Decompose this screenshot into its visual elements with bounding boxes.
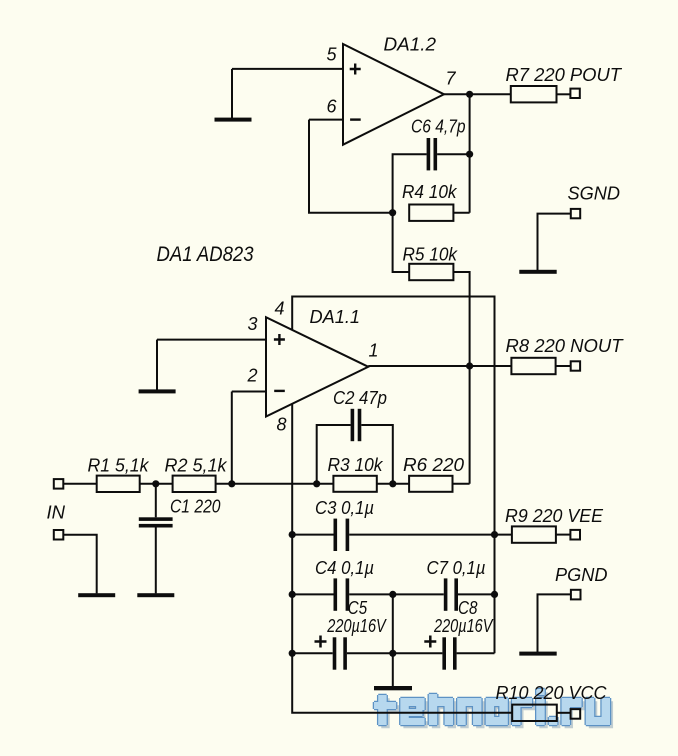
node C2 right <box>389 480 396 487</box>
capacitor C8 <box>442 637 456 669</box>
node R9 <box>491 531 498 538</box>
wire mid bus <box>392 594 394 686</box>
PGND wire <box>538 594 571 652</box>
node mid bus top <box>389 591 396 598</box>
resistor R1 <box>97 476 140 492</box>
svg-text:C7 0,1µ: C7 0,1µ <box>427 558 486 578</box>
wire output DA1.1 <box>368 365 511 367</box>
wire R6 right <box>453 483 470 485</box>
wire pin4 to VEE bus <box>292 297 494 654</box>
resistor R6 <box>409 476 452 492</box>
svg-text:C6 4,7p: C6 4,7p <box>411 117 466 137</box>
capacitor C5 <box>333 637 347 669</box>
svg-text:C2 47p: C2 47p <box>333 388 387 408</box>
svg-text:R4 10k: R4 10k <box>402 182 457 202</box>
capacitor C1 <box>139 517 173 527</box>
terminal IN shield <box>54 530 64 540</box>
wire C5-C8 <box>347 652 443 654</box>
node C5 left <box>289 650 296 657</box>
capacitor C6 <box>427 138 438 170</box>
svg-text:R6 220: R6 220 <box>403 455 464 475</box>
svg-text:1: 1 <box>369 340 379 360</box>
wire C3 right <box>349 534 512 536</box>
node output pin7 <box>466 91 473 98</box>
node C1 <box>152 480 159 487</box>
svg-text:IN: IN <box>47 502 67 522</box>
capacitor C4 <box>334 578 350 610</box>
wire R4 right <box>453 212 469 214</box>
node pin2 <box>228 480 235 487</box>
wire C6 right <box>437 153 470 155</box>
DA1.1 plus input symbol <box>274 334 285 345</box>
terminal IN <box>54 479 64 489</box>
ground <box>139 389 176 393</box>
wire C1 top <box>155 484 157 518</box>
wire output bus <box>469 94 471 212</box>
node R4 left <box>389 209 396 216</box>
svg-text:3: 3 <box>248 314 258 334</box>
wire pin2 <box>232 391 266 393</box>
svg-text:DA1 AD823: DA1 AD823 <box>157 243 254 266</box>
wire C5 left <box>292 652 333 654</box>
svg-text:R10 220 VCC: R10 220 VCC <box>496 683 608 703</box>
DA1.2 minus input symbol <box>350 118 361 120</box>
C5 plus sign <box>315 636 327 648</box>
node C7 right <box>491 591 498 598</box>
op-amp DA1.2 <box>343 44 444 145</box>
wire IN shield <box>63 535 96 594</box>
resistor R2 <box>173 476 216 492</box>
wire C6 left <box>393 154 427 213</box>
wire R2 right <box>216 483 334 485</box>
svg-text:8: 8 <box>277 415 287 435</box>
svg-text:220µ16V: 220µ16V <box>433 616 494 636</box>
resistor R8 <box>511 358 555 374</box>
node mid bus bottom <box>389 650 396 657</box>
resistor R9 <box>512 526 556 542</box>
wire R10 right <box>557 712 571 714</box>
svg-text:R3 10k: R3 10k <box>328 455 384 475</box>
wire R3 right <box>377 483 409 485</box>
wire pin2 down <box>231 392 233 484</box>
svg-text:C1 220: C1 220 <box>170 496 221 516</box>
svg-text:220µ16V: 220µ16V <box>326 616 387 636</box>
svg-text:6: 6 <box>327 97 338 117</box>
svg-text:SGND: SGND <box>568 184 621 204</box>
wire R5 right <box>453 272 469 484</box>
resistor R10 <box>512 705 557 721</box>
resistor R7 <box>511 86 557 102</box>
PGND terminal <box>571 590 581 600</box>
svg-text:R5 10k: R5 10k <box>403 245 458 265</box>
wire R1 right <box>140 483 173 485</box>
resistor R5 <box>409 264 453 280</box>
wire C2 left <box>317 425 351 484</box>
wire to ground (pin5) <box>231 69 233 118</box>
capacitor C2 <box>351 409 362 441</box>
svg-text:R2 5,1k: R2 5,1k <box>165 455 228 475</box>
svg-text:4: 4 <box>275 299 285 319</box>
wire pin3 ground <box>156 340 158 390</box>
svg-text:DA1.1: DA1.1 <box>310 307 361 327</box>
wire pin5 <box>232 68 343 70</box>
resistor R3 <box>333 476 376 492</box>
wire IN <box>63 483 96 485</box>
ground IN <box>78 593 115 597</box>
wire pin6 <box>309 119 343 121</box>
ground mid <box>374 686 412 690</box>
svg-text:R7 220 POUT: R7 220 POUT <box>506 65 624 85</box>
SGND ground <box>519 270 556 274</box>
ground C1 <box>137 593 174 597</box>
wire pin8 bus <box>292 404 512 713</box>
svg-text:5: 5 <box>327 44 338 64</box>
PGND ground <box>519 652 556 656</box>
svg-text:2: 2 <box>247 365 258 385</box>
resistor R4 <box>409 205 453 221</box>
wire C4 left <box>292 593 333 595</box>
node C4 left <box>289 591 296 598</box>
terminal NOUT <box>571 361 580 370</box>
svg-text:PGND: PGND <box>555 565 608 585</box>
terminal VEE <box>570 530 580 540</box>
node C6 right <box>466 151 473 158</box>
svg-text:C5: C5 <box>348 598 368 618</box>
wire R5 left <box>393 213 410 272</box>
SGND terminal <box>571 209 580 218</box>
wire C3 left <box>292 534 333 536</box>
capacitor C7 <box>444 578 458 610</box>
node C2 left <box>313 480 320 487</box>
svg-text:C8: C8 <box>458 598 478 618</box>
svg-text:C4 0,1µ: C4 0,1µ <box>315 558 374 578</box>
DA1.1 minus input symbol <box>274 390 285 392</box>
wire output <box>444 93 511 95</box>
svg-text:R1 5,1k: R1 5,1k <box>88 455 150 475</box>
terminal POUT <box>570 89 579 98</box>
wire C4-C7 <box>349 593 444 595</box>
svg-text:DA1.2: DA1.2 <box>384 35 437 55</box>
capacitor C3 <box>334 519 350 551</box>
C8 plus sign <box>424 636 436 648</box>
wire <box>309 120 393 213</box>
wire R8 right <box>556 365 571 367</box>
node C3 left <box>289 531 296 538</box>
wire C2 right <box>361 425 393 484</box>
svg-text:C3 0,1µ: C3 0,1µ <box>315 498 374 518</box>
DA1.2 plus input symbol <box>350 64 361 75</box>
wire pin3 <box>157 339 266 341</box>
wire C1 bottom <box>155 528 157 594</box>
terminal VCC <box>571 709 581 719</box>
svg-text:R8 220 NOUT: R8 220 NOUT <box>506 336 625 356</box>
SGND wire <box>538 214 571 271</box>
wire C7 right <box>458 593 495 595</box>
node NOUT <box>466 362 473 369</box>
wire R9 right <box>556 534 571 536</box>
wire C8 right <box>457 652 495 654</box>
svg-text:R9 220 VEE: R9 220 VEE <box>505 506 604 526</box>
ground <box>215 118 252 122</box>
wire R7 to pad <box>557 93 571 95</box>
op-amp DA1.1 <box>266 317 368 416</box>
svg-text:7: 7 <box>446 69 457 89</box>
